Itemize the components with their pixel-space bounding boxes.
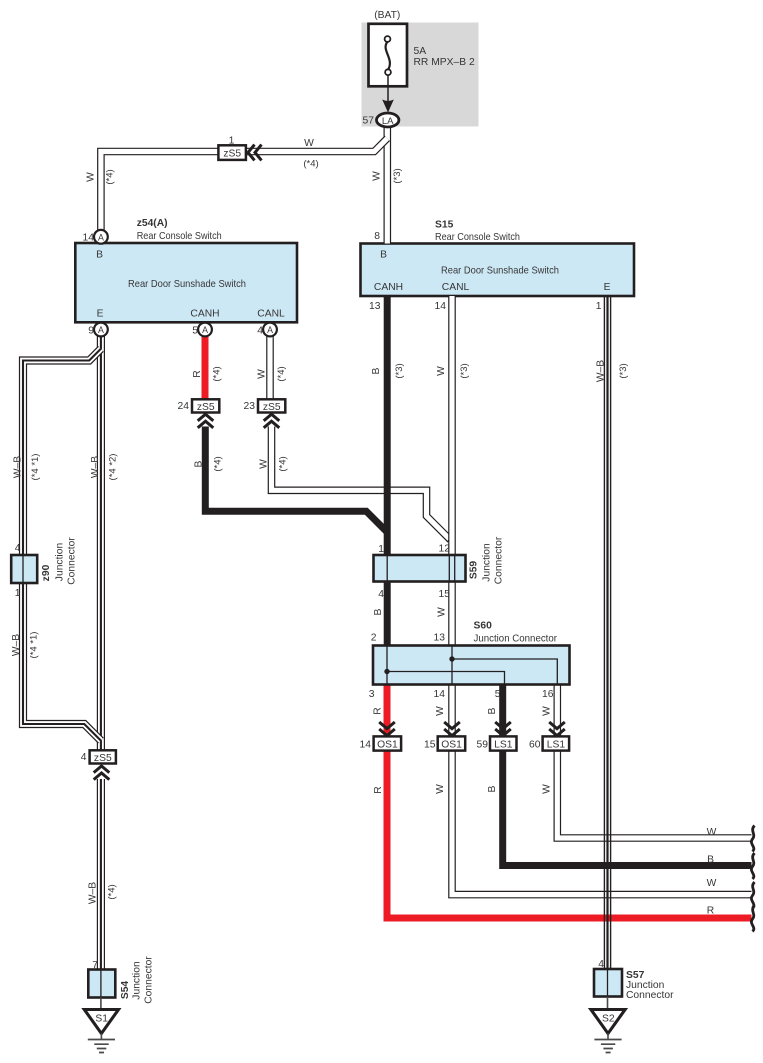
svg-text:Connector: Connector (626, 990, 674, 1001)
wire B from zS5 24 joining CANH trunk (205, 427, 387, 533)
svg-text:(*4 *1): (*4 *1) (29, 632, 40, 659)
svg-text:(BAT): (BAT) (374, 10, 400, 21)
wire R red z54(A) CANH pin 5 down to zS5 24 (202, 331, 209, 401)
ground triangle S2 (591, 1010, 625, 1034)
wire R from S60 pin 3 through OS1 14 to right break (387, 683, 752, 918)
wire W z54(A) CANL pin 4 down to zS5 23 (266, 331, 274, 401)
connector zS5 pin 24 (192, 399, 219, 412)
svg-text:W: W (435, 784, 446, 794)
svg-text:Connector: Connector (494, 536, 505, 584)
svg-text:4: 4 (15, 543, 21, 554)
chevron down at OS1 15 (444, 722, 460, 736)
svg-text:14: 14 (435, 301, 447, 312)
pin 9 connector A on z54(A) (94, 323, 108, 337)
svg-text:B: B (371, 367, 382, 374)
connector OS1 pin 15 (438, 736, 466, 750)
junction connector S54 (88, 970, 115, 998)
svg-text:LS1: LS1 (547, 740, 566, 751)
wire W from S60 pin 16 through LS1 60 to right break (557, 683, 751, 838)
svg-text:LA: LA (382, 116, 394, 127)
svg-text:W: W (707, 827, 717, 838)
pin 14 connector A on z54(A) (94, 230, 108, 244)
svg-text:zS5: zS5 (94, 753, 112, 764)
big component boxes (75, 243, 634, 322)
svg-text:Connector: Connector (144, 956, 155, 1004)
pin 5 connector A on z54(A) (198, 323, 212, 337)
wire W CANL from S15 pin 14 to S60 pin 13 (448, 296, 456, 647)
svg-text:(*4): (*4) (107, 884, 118, 899)
svg-text:5: 5 (192, 326, 198, 337)
svg-text:14: 14 (360, 740, 372, 751)
chevron left at zS5 1 (248, 145, 262, 161)
grounds (84, 997, 625, 1053)
svg-text:9: 9 (88, 326, 94, 337)
svg-text:R: R (373, 786, 384, 793)
svg-text:W: W (542, 784, 553, 794)
fuse block background (362, 23, 479, 127)
svg-text:z90: z90 (41, 564, 52, 581)
svg-text:13: 13 (369, 301, 381, 312)
svg-text:W: W (436, 366, 447, 376)
svg-text:W: W (542, 706, 553, 716)
svg-text:R: R (707, 905, 714, 916)
svg-text:zS5: zS5 (263, 402, 281, 413)
svg-text:13: 13 (434, 633, 446, 644)
svg-text:S54: S54 (120, 981, 131, 1000)
svg-text:1: 1 (229, 136, 235, 147)
ECU S15 Rear Door Sunshade Switch (361, 244, 635, 297)
svg-text:15: 15 (439, 589, 451, 600)
svg-text:(*4): (*4) (213, 456, 224, 471)
wire S54 to ground S1 (100, 998, 102, 1011)
svg-text:(*4): (*4) (303, 159, 318, 170)
wire fuse to LA (387, 75, 389, 104)
node S60 junction dot right (449, 656, 454, 661)
svg-text:15: 15 (424, 740, 436, 751)
ECU z54(A) Rear Door Sunshade Switch (75, 243, 297, 322)
svg-text:R: R (192, 370, 203, 377)
chevron up at zS5 4 (94, 766, 110, 780)
connector zS5 pin 23 (258, 399, 285, 412)
svg-text:Junction Connector: Junction Connector (474, 634, 558, 645)
junction connector boxes (11, 555, 622, 998)
svg-text:(*3): (*3) (618, 363, 629, 378)
svg-text:W: W (372, 171, 383, 181)
svg-text:S15: S15 (435, 220, 454, 231)
svg-text:CANH: CANH (190, 309, 219, 320)
wire break W top (751, 826, 754, 852)
svg-text:zS5: zS5 (197, 402, 215, 413)
wire W from S60 pin 14 through OS1 15 to right break (452, 683, 752, 895)
svg-text:OS1: OS1 (377, 740, 398, 751)
svg-text:S59: S59 (469, 561, 480, 580)
svg-text:CANH: CANH (374, 282, 403, 293)
S59 internal pass-through lines (387, 556, 455, 581)
svg-text:S2: S2 (602, 1014, 615, 1025)
svg-text:E: E (604, 282, 611, 293)
svg-text:(*3): (*3) (392, 168, 403, 183)
svg-text:W–B: W–B (596, 360, 607, 382)
svg-text:Junction: Junction (132, 961, 143, 1000)
svg-text:zS5: zS5 (223, 149, 241, 160)
z90 internal pass-through line (22, 556, 24, 582)
svg-text:A: A (98, 325, 104, 335)
svg-text:RR MPX–B 2: RR MPX–B 2 (414, 57, 476, 68)
connector zS5 pin 4 (90, 750, 116, 763)
svg-text:B: B (707, 855, 714, 866)
svg-text:B: B (380, 249, 387, 260)
svg-text:B: B (487, 785, 498, 792)
svg-text:23: 23 (244, 401, 256, 412)
svg-text:(*4): (*4) (276, 366, 287, 381)
svg-text:4: 4 (81, 752, 87, 763)
svg-text:(*4): (*4) (105, 169, 116, 184)
svg-text:1: 1 (596, 301, 602, 312)
svg-text:W: W (257, 369, 268, 379)
svg-text:B: B (96, 249, 103, 260)
pin circles (94, 113, 399, 336)
wire W-B from zS5 4 down to S54 (97, 779, 105, 971)
svg-text:(*3): (*3) (459, 363, 470, 378)
svg-text:W: W (435, 706, 446, 716)
svg-text:2: 2 (371, 633, 377, 644)
connector zS5 pin 1 (218, 145, 246, 160)
wire W-B branch through z90 junction connector (23, 349, 101, 741)
connector LA oval 57 (377, 113, 399, 127)
svg-text:Rear Console Switch: Rear Console Switch (435, 232, 520, 243)
svg-text:W: W (437, 607, 448, 617)
svg-text:14: 14 (434, 689, 446, 700)
chevrons (94, 145, 565, 780)
junction connector S59 (374, 555, 466, 582)
wire W-B from S15 pin 1 down to S57 (two-line with stripe) (604, 296, 610, 970)
svg-text:1: 1 (378, 544, 384, 555)
svg-text:59: 59 (477, 740, 489, 751)
svg-text:14: 14 (83, 233, 95, 244)
wire W from zS5 23 to S59 pin 12 (272, 427, 451, 540)
svg-text:(*4): (*4) (212, 366, 223, 381)
connector LS1 pin 60 (543, 736, 570, 750)
svg-text:Rear Door Sunshade Switch: Rear Door Sunshade Switch (441, 265, 559, 276)
svg-text:5A: 5A (414, 46, 427, 57)
svg-text:(*4 *2): (*4 *2) (108, 454, 119, 481)
junction connector S57 (594, 969, 622, 997)
ground symbol S1 (88, 1040, 115, 1053)
wire W-B from z54(A) pin 9 down to zS5 4 (97, 331, 105, 751)
svg-text:A: A (267, 325, 273, 335)
wire S57 to ground S2 (607, 997, 609, 1011)
svg-text:(*4): (*4) (278, 456, 289, 471)
fuse F 5A RR MPX-B 2 (369, 24, 408, 87)
wire S2 to ground bars (607, 1034, 609, 1040)
wire break B (751, 853, 754, 879)
svg-text:16: 16 (542, 689, 554, 700)
svg-text:R: R (373, 707, 384, 714)
svg-text:Junction: Junction (55, 543, 66, 582)
svg-text:W: W (259, 459, 270, 469)
svg-text:S1: S1 (95, 1014, 108, 1025)
S60 internal wires and junction dots (387, 647, 557, 685)
svg-text:OS1: OS1 (441, 740, 462, 751)
svg-text:W–B: W–B (11, 634, 22, 656)
chevron up at zS5 23 (264, 414, 280, 428)
S54 internal pass-through line (100, 970, 102, 998)
wire W from fuse 57 LA down to S15 pin 8 (383, 120, 391, 244)
svg-text:Rear Console Switch: Rear Console Switch (137, 231, 222, 242)
svg-text:z54(A): z54(A) (137, 218, 168, 229)
svg-text:12: 12 (439, 543, 451, 554)
small connector boxes (90, 145, 569, 764)
svg-text:(*4 *1): (*4 *1) (30, 454, 41, 481)
wire break R (751, 906, 754, 932)
junction connector S60 (373, 646, 570, 685)
svg-text:(*3): (*3) (394, 363, 405, 378)
chevron down at LS1 59 (495, 722, 511, 736)
node S60 junction dot left (384, 669, 389, 674)
wire break W lower (751, 882, 754, 908)
wire B CANH from S15 pin 13 to S59 pin 1 (384, 296, 391, 557)
svg-text:8: 8 (374, 231, 380, 242)
S57 internal pass-through line (607, 970, 609, 997)
svg-text:LS1: LS1 (494, 740, 513, 751)
wire W branch from LA wire to zS5 1 and z54(A) pin 14 (101, 138, 387, 237)
svg-text:B: B (194, 460, 205, 467)
svg-text:4: 4 (598, 959, 604, 970)
ground symbol S2 (594, 1040, 621, 1053)
wire B from S60 pin 5 through LS1 59 to right break (503, 683, 752, 866)
svg-text:Connector: Connector (67, 537, 78, 585)
svg-text:W: W (707, 878, 717, 889)
wire B S59 pin 4 to S60 pin 2 (384, 580, 391, 647)
pin 4 connector A on z54(A) (263, 323, 277, 337)
arrowhead into LA (382, 100, 394, 113)
svg-text:W–B: W–B (88, 882, 99, 904)
svg-text:W–B: W–B (13, 456, 24, 478)
svg-text:4: 4 (257, 326, 263, 337)
svg-text:24: 24 (178, 401, 190, 412)
chevron down at OS1 14 (379, 722, 395, 736)
svg-text:CANL: CANL (442, 282, 470, 293)
svg-text:B: B (373, 608, 384, 615)
svg-text:B: B (487, 707, 498, 714)
chevron up at zS5 24 (198, 414, 214, 428)
svg-text:5: 5 (495, 689, 501, 700)
svg-text:57: 57 (363, 116, 375, 127)
junction connector z90 (11, 555, 37, 583)
connector OS1 pin 14 (374, 736, 402, 750)
svg-text:W–B: W–B (90, 456, 101, 478)
svg-text:3: 3 (369, 689, 375, 700)
connector LS1 pin 59 (490, 736, 517, 750)
svg-text:1: 1 (15, 588, 21, 599)
svg-text:W: W (86, 172, 97, 182)
svg-text:S60: S60 (474, 621, 493, 632)
svg-text:60: 60 (529, 740, 541, 751)
svg-text:Junction: Junction (482, 543, 493, 582)
svg-text:W: W (304, 138, 314, 149)
svg-text:A: A (202, 325, 208, 335)
svg-text:7: 7 (92, 960, 98, 971)
svg-text:CANL: CANL (257, 309, 285, 320)
break symbols (751, 826, 754, 932)
ground triangle S1 (84, 1010, 118, 1034)
wire S1 to ground bars (100, 1034, 102, 1040)
svg-text:E: E (97, 309, 104, 320)
svg-text:4: 4 (378, 589, 384, 600)
svg-text:Rear Door Sunshade Switch: Rear Door Sunshade Switch (128, 279, 246, 290)
svg-text:A: A (98, 232, 104, 242)
chevron down at LS1 60 (549, 722, 565, 736)
fuse block gray area (362, 23, 479, 127)
